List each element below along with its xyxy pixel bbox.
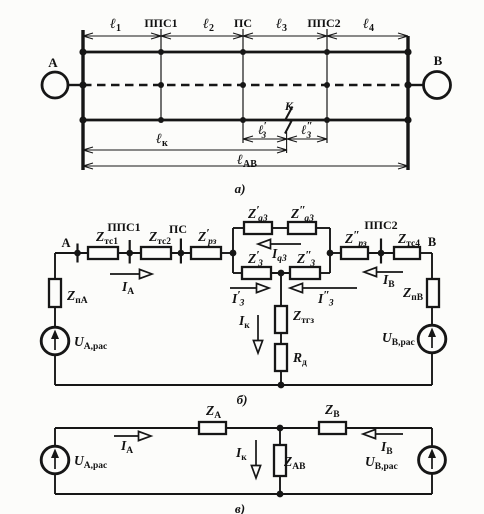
resistor Ztc4 [394, 247, 420, 259]
svg-text:ППС2: ППС2 [307, 16, 340, 30]
node dot right parallel [327, 250, 334, 257]
dimension line lAB [83, 163, 408, 169]
source UB,pac circle [418, 325, 446, 353]
wire parallel left vertical [232, 228, 234, 273]
svg-text:А: А [48, 55, 58, 70]
svg-text:б): б) [237, 392, 248, 407]
svg-text:ППС1: ППС1 [144, 16, 177, 30]
resistor Z''3 [290, 267, 320, 279]
current arrow I''3 [290, 283, 357, 292]
wire bottom line (c) [55, 493, 432, 495]
wire to corner B [420, 252, 432, 254]
wire [221, 252, 233, 254]
resistor ZAB [274, 445, 286, 476]
svg-text:а): а) [235, 181, 246, 196]
wire right vertical down [431, 253, 433, 279]
svg-text:ПС: ПС [234, 16, 252, 30]
wire bottom line [83, 119, 408, 122]
source UA,pac circle (c) [41, 446, 69, 474]
node dot ППС2 [378, 250, 385, 257]
wire right vertical (c) [431, 428, 433, 447]
source arrow [428, 449, 436, 470]
tick ППС1 (b) [129, 240, 131, 264]
source UA,pac circle [41, 327, 69, 355]
generator A circle [42, 72, 68, 98]
wire [171, 252, 191, 254]
dimension line l2 [161, 33, 243, 39]
fault K lightning bolt [285, 107, 293, 134]
current arrow IA (b) [110, 269, 152, 278]
wire top branch right [316, 227, 330, 229]
wire [118, 252, 141, 254]
resistor Rd [275, 344, 287, 371]
wire center fault branch top [280, 273, 282, 306]
dimension line l''3 [287, 136, 327, 142]
wire dashed middle line [83, 84, 408, 86]
svg-text:В: В [434, 53, 443, 68]
tick ППС1 vertical [160, 29, 162, 120]
resistor Ztc1 [88, 247, 118, 259]
wire left vertical [54, 253, 56, 279]
node dots on top line [79, 48, 411, 55]
wire main top line left part [55, 252, 88, 254]
bus B (right thick vertical) [406, 36, 409, 170]
svg-text:В: В [428, 235, 436, 249]
dimension line lk [83, 147, 287, 153]
wire from A circle to bus [68, 84, 83, 86]
wire bottom line (b) [55, 384, 432, 386]
wire [54, 307, 56, 327]
resistor Z'q3 [244, 222, 272, 234]
bus A (left thick vertical) [81, 30, 84, 170]
dimension line l1 [83, 33, 161, 39]
wire top line (c) left [55, 427, 199, 429]
resistor Ztg3 [275, 306, 287, 333]
dimension line l'3 [243, 136, 287, 142]
source UB arrow [428, 328, 436, 349]
wire bottom branch mid [271, 272, 290, 274]
node dot top center (c) [277, 425, 284, 432]
wire from bus to B circle [408, 84, 424, 86]
wire [346, 427, 432, 429]
resistor ZA [199, 422, 226, 434]
node dot left parallel [230, 250, 237, 257]
wire [330, 252, 341, 254]
source UA arrow [51, 330, 59, 351]
resistor ZB [319, 422, 346, 434]
tick ПС vertical [242, 29, 244, 143]
current arrow IA (c) [114, 431, 151, 440]
wire [54, 474, 56, 494]
tick K vertical [286, 132, 288, 153]
wire bottom branch right [320, 272, 330, 274]
wire center vertical (c) [279, 428, 281, 445]
svg-text:ПС: ПС [169, 222, 187, 236]
wire [279, 476, 281, 494]
wire parallel right vertical [329, 228, 331, 273]
tick ППС2 (b) [380, 239, 382, 264]
node dot mid bottom branch [278, 270, 285, 277]
generator B circle [424, 72, 451, 99]
wire [431, 353, 433, 385]
wire [431, 474, 433, 495]
current arrow Iq3 [258, 239, 301, 248]
wire [368, 252, 394, 254]
wire [226, 427, 319, 429]
resistor Ztc2 [141, 247, 171, 259]
wire top branch mid [272, 227, 288, 229]
dimension line l3 [243, 33, 327, 39]
resistor ZpB [427, 279, 439, 307]
wire top branch left [233, 227, 244, 229]
node dot bottom center (c) [277, 491, 284, 498]
node dot bottom center [278, 382, 285, 389]
current arrow IB (c) [363, 429, 403, 438]
resistor Z'3 [242, 267, 271, 279]
node dots on bottom line [79, 116, 411, 123]
svg-text:ППС1: ППС1 [107, 220, 140, 234]
svg-text:К: К [284, 99, 294, 113]
tick ППС2 vertical [326, 29, 328, 143]
svg-text:в): в) [235, 501, 245, 514]
resistor Z'p3 [191, 247, 221, 259]
tick ПС (b) [180, 239, 182, 264]
current arrow I'3 [230, 283, 269, 292]
svg-text:ППС2: ППС2 [364, 218, 397, 232]
current arrow Ik (c) [251, 440, 260, 478]
svg-text:А: А [61, 236, 70, 250]
current arrow IB (b) [364, 267, 403, 276]
current arrow Ik (b) [253, 315, 262, 353]
resistor Z''q3 [288, 222, 316, 234]
wire top line [83, 51, 408, 54]
wire bottom branch left [233, 272, 242, 274]
tick node A' [76, 244, 78, 263]
source arrow [51, 449, 59, 470]
wire [280, 333, 282, 344]
wire [54, 355, 56, 385]
resistor Z''p3 [341, 247, 368, 259]
dimension line l4 [327, 33, 408, 39]
source UB,pac circle (c) [419, 447, 446, 474]
wire left vertical (c) [54, 428, 56, 446]
wire [431, 307, 433, 325]
wire [280, 371, 282, 385]
resistor ZpA [49, 279, 61, 307]
node dots on dashed line [79, 81, 411, 88]
